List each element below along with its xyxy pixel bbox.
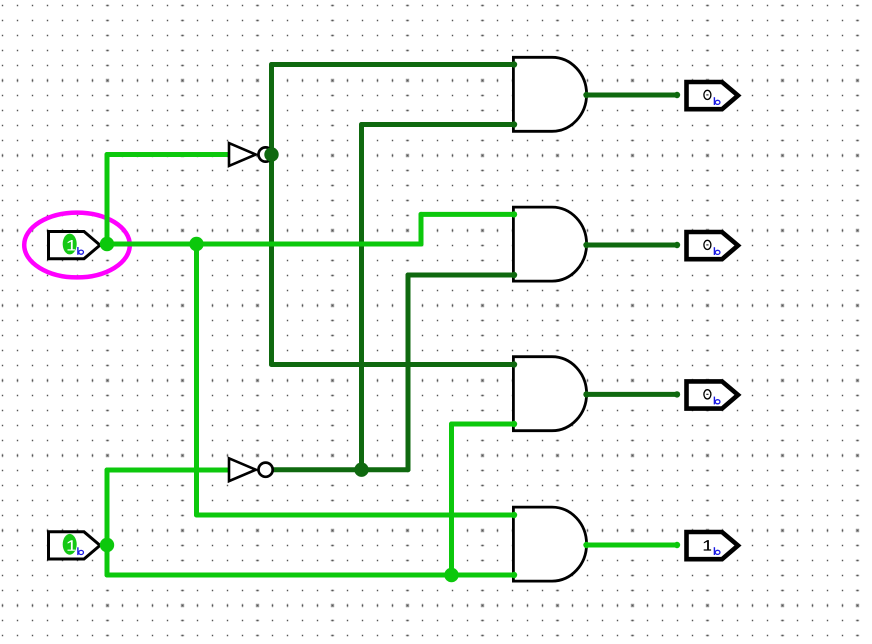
pin AND1 out terminal [583, 92, 589, 98]
wire IN2 to NOT2 in [107, 468, 230, 473]
output OUT3 value digit 0 [704, 390, 711, 399]
pin AND4 in B terminal [511, 572, 517, 578]
NOT gate U6 bubble [259, 463, 273, 477]
input IN2 base label b [77, 547, 78, 555]
pin AND3 in B terminal [511, 421, 517, 427]
junction NOT2 out node [354, 463, 368, 477]
input IN2 value ellipse [63, 534, 77, 555]
wire IN1 horizontal main [107, 242, 421, 247]
pin OUT1 terminal [674, 92, 680, 98]
pin AND1 in A terminal [511, 61, 517, 67]
pin OUT2 terminal [674, 242, 680, 248]
output pin OUT4 [687, 532, 739, 559]
NOT gate U5 triangle [229, 143, 256, 166]
AND gate U3 [513, 357, 586, 431]
wire NOT2 out horizontal [272, 467, 408, 472]
wire to AND2 in A [421, 212, 514, 217]
output pin OUT3 [687, 381, 739, 408]
wire NOT2 out up rail [359, 125, 364, 470]
input pin IN1 [49, 232, 101, 259]
pin AND2 in B terminal [511, 272, 517, 278]
AND gate U1 [513, 57, 586, 131]
wire IN1 up rail [105, 155, 110, 245]
wire IN2 up rail [105, 470, 110, 545]
wire AND1 out to OUT1 [587, 93, 678, 98]
wire IN1 down rail [194, 244, 199, 515]
output pin OUT2 [687, 232, 739, 259]
NOT gate U5 bubble [259, 147, 273, 161]
pin AND4 out terminal [583, 542, 589, 548]
input IN2 value digit 1 [68, 540, 75, 551]
output OUT1 base label b [714, 97, 715, 105]
input IN1 base label b [77, 247, 78, 255]
wire NOT2 out to AND1 in B [362, 122, 515, 127]
wire IN1 to NOT1 in [107, 152, 230, 157]
wire IN2 to AND4 in B [107, 573, 514, 578]
wire NOT1 out down rail [269, 155, 274, 365]
junction main/branch node [189, 237, 203, 251]
wire AND2 out to OUT2 [587, 243, 678, 248]
output OUT4 value digit 1 [704, 540, 711, 551]
wire main up bend [419, 214, 424, 244]
output OUT2 value digit 0 [704, 240, 711, 249]
highlight ellipse around input IN1 [24, 213, 130, 278]
pin AND3 out terminal [583, 391, 589, 397]
pin OUT4 terminal [674, 542, 680, 548]
input IN1 value digit 1 [68, 240, 75, 251]
wire AND3 out to OUT3 [587, 392, 678, 397]
junction AND4-B/AND3-B node [444, 568, 458, 582]
output pin OUT1 [687, 82, 739, 109]
wire NOT1 out to AND3 in A [272, 362, 515, 367]
wire to AND4 in A [197, 513, 515, 518]
wire IN2 down rail [105, 545, 110, 575]
pin AND3 in A terminal [511, 361, 517, 367]
wire NOT1 out to AND1 in A [272, 62, 515, 67]
wire NOT2 out up rail 2 [406, 275, 411, 470]
wire branch up rail [449, 424, 454, 575]
pin AND2 in A terminal [511, 211, 517, 217]
output OUT4 base label b [714, 547, 715, 555]
pin AND2 out terminal [583, 242, 589, 248]
AND gate U2 [513, 207, 586, 281]
junction NOT1 out node [264, 147, 278, 161]
pin AND1 in B terminal [511, 121, 517, 127]
AND gate U4 [513, 507, 586, 581]
pin AND4 in A terminal [511, 512, 517, 518]
pin OUT3 terminal [674, 391, 680, 397]
junction IN2 node [100, 538, 114, 552]
input IN1 value ellipse [63, 234, 77, 255]
wire AND4 out to OUT4 [587, 543, 678, 548]
output OUT1 value digit 0 [704, 90, 711, 99]
input pin IN2 [49, 532, 101, 559]
output OUT3 base label b [714, 397, 715, 405]
NOT gate U6 triangle [229, 458, 256, 481]
wire NOT2 out to AND2 in B [408, 273, 514, 278]
wire NOT1 out up rail [269, 65, 274, 155]
wire to AND3 in B [452, 422, 515, 427]
junction IN1 node [100, 237, 114, 251]
output OUT2 base label b [714, 247, 715, 255]
